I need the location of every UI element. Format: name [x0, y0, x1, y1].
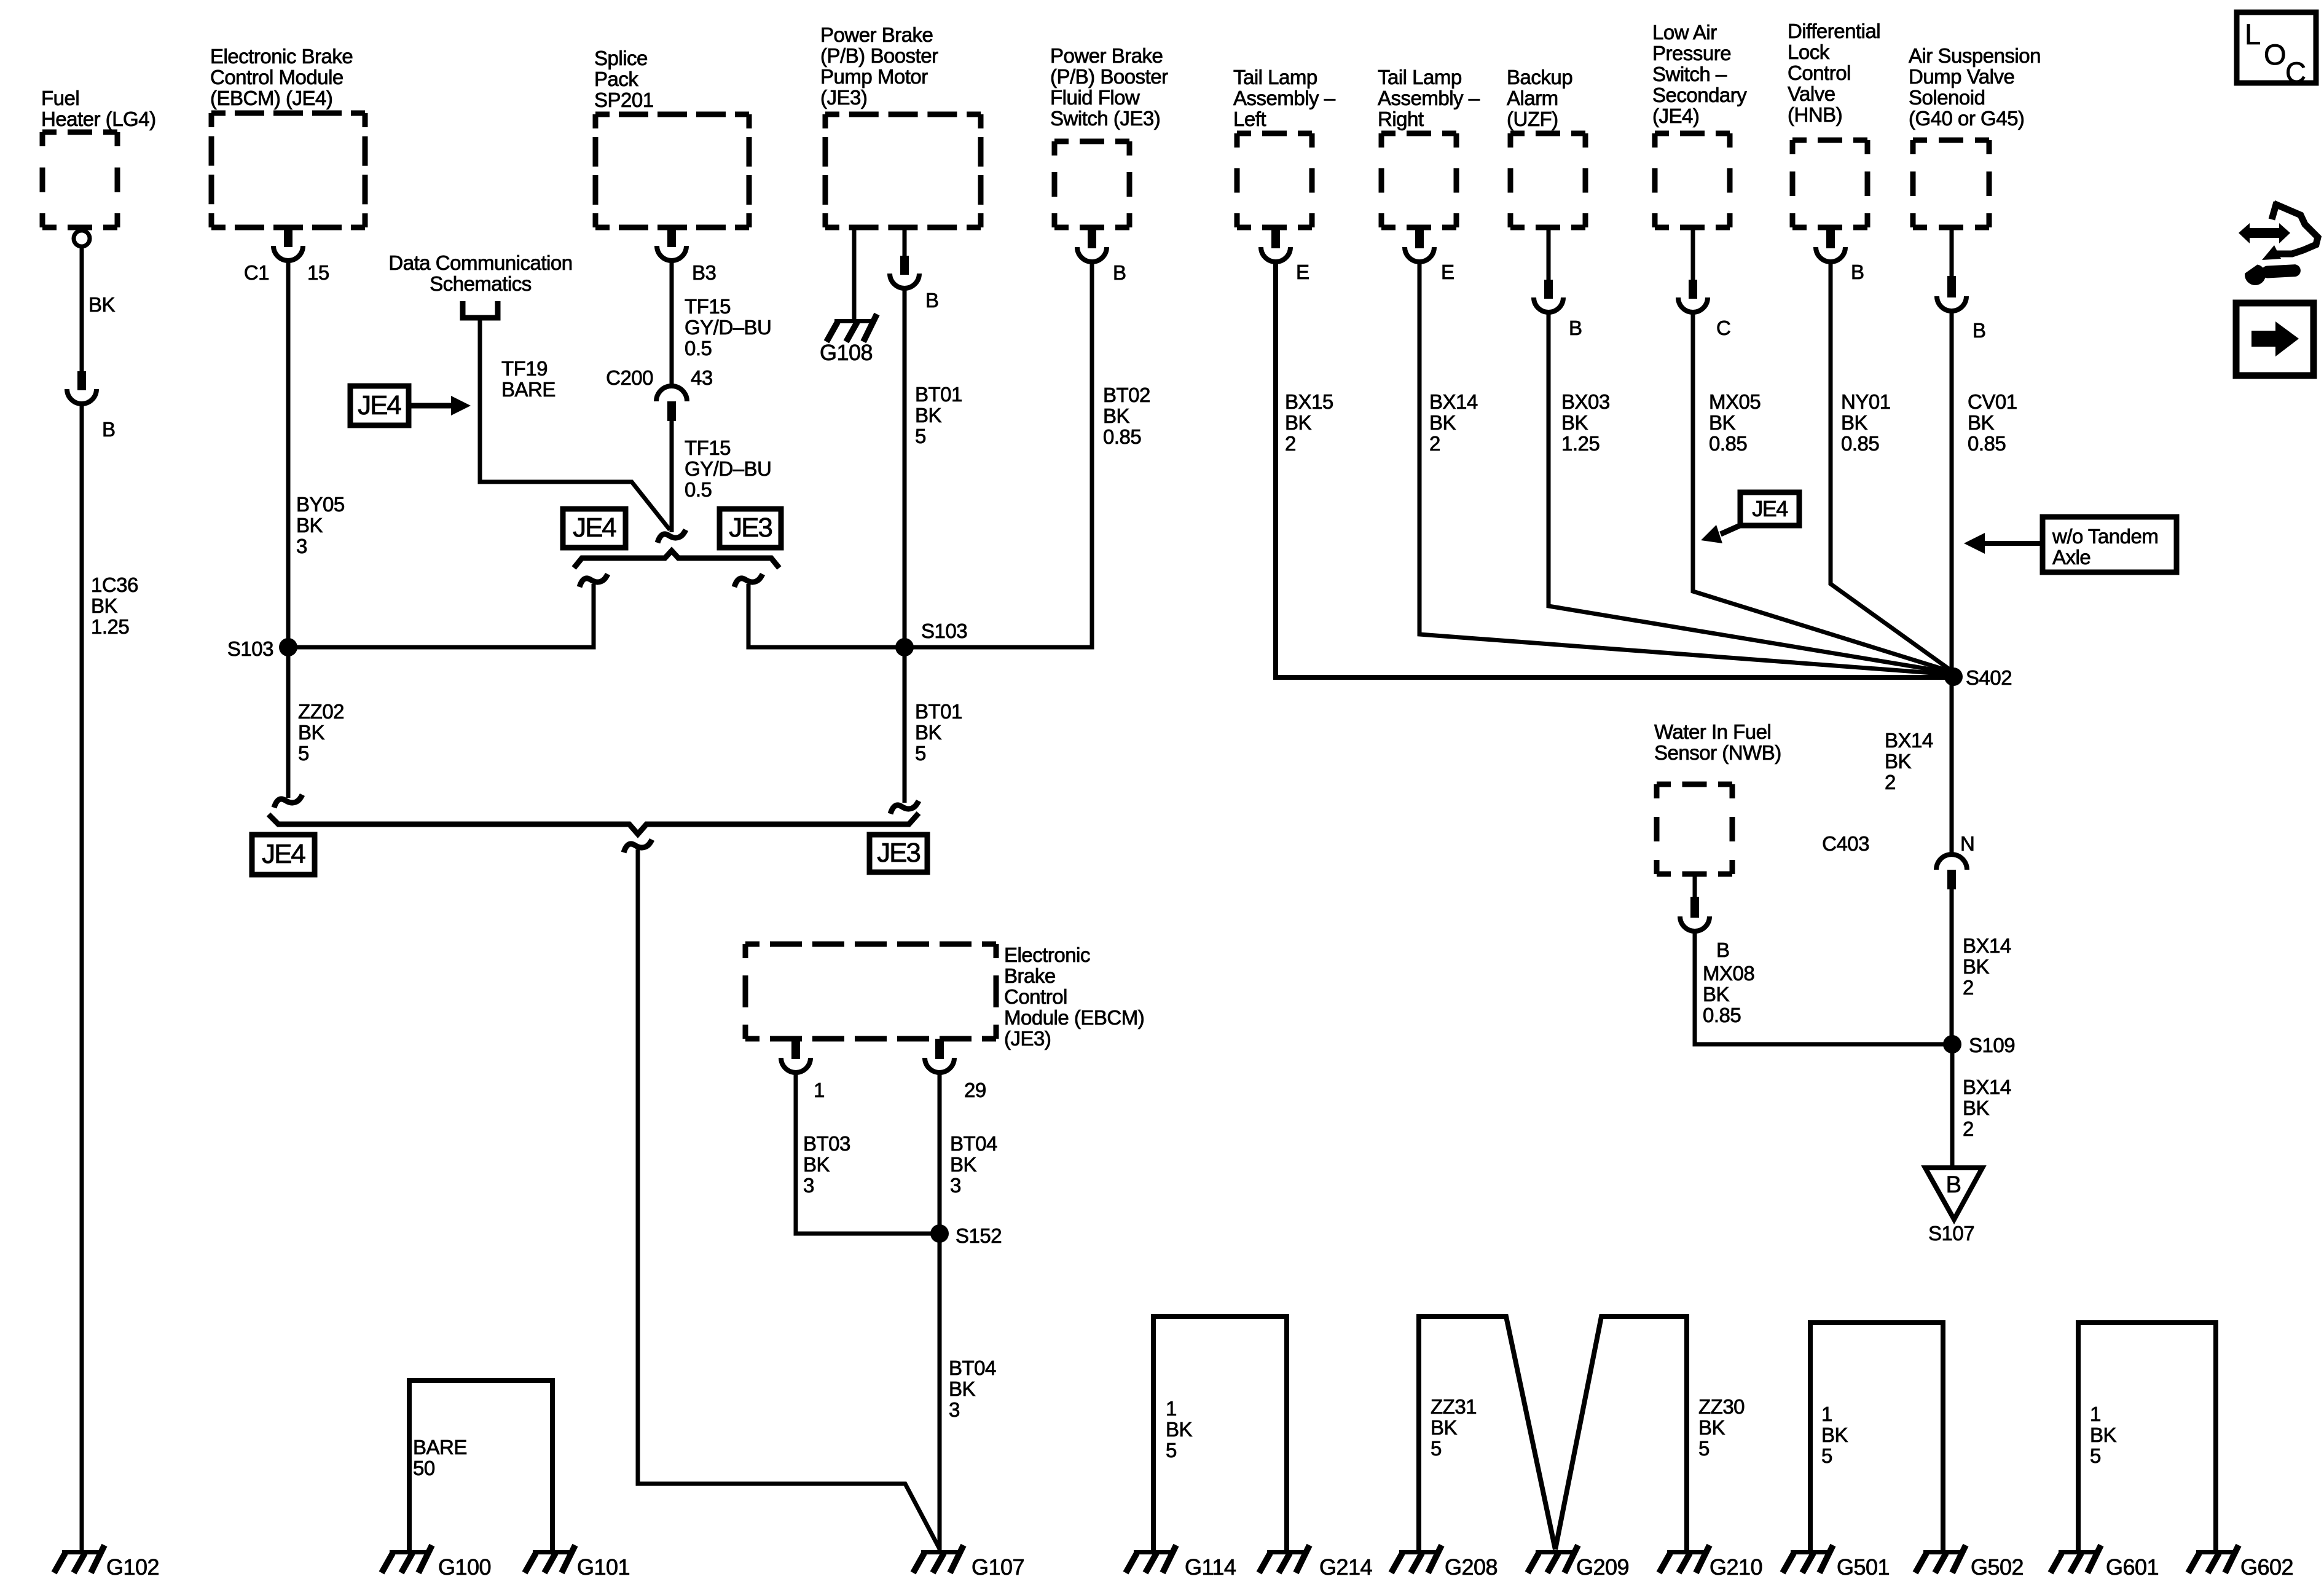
svg-text:Secondary: Secondary	[1652, 84, 1747, 106]
svg-text:G601: G601	[2106, 1554, 2159, 1579]
svg-text:BY05: BY05	[296, 493, 345, 516]
svg-text:Axle: Axle	[2052, 546, 2090, 569]
wire: low air pressure lead	[1691, 227, 1695, 280]
svg-text:BK: BK	[1166, 1418, 1193, 1441]
wire: wire BX14 to S107	[1950, 1044, 1955, 1169]
svg-text:Heater (LG4): Heater (LG4)	[41, 108, 156, 130]
label: Tail Lamp Assembly Left title	[1233, 66, 1336, 130]
svg-text:BX14: BX14	[1429, 390, 1478, 413]
off-page bracket to Data Communication Schematics	[463, 301, 498, 318]
wire: wire BT04 upper	[938, 1074, 942, 1234]
component box: Electronic Brake Control Module (EBCM) (JE3) (dashed)	[745, 944, 996, 1039]
svg-text:CV01: CV01	[1968, 390, 2017, 413]
label: wire label BX14 BK 2 below S109	[1963, 1076, 2011, 1140]
svg-text:(G40 or G45): (G40 or G45)	[1909, 107, 2024, 130]
svg-text:BK: BK	[803, 1153, 830, 1176]
label: wire label BT02 BK 0.85	[1103, 384, 1150, 448]
svg-text:BK: BK	[950, 1153, 977, 1176]
wire break hook at JE4 branch wire top	[579, 574, 608, 587]
label: wire label CV01 BK 0.85	[1968, 390, 2017, 455]
label: wire label BX14 BK 2 below S402	[1885, 729, 1933, 793]
svg-text:3: 3	[949, 1398, 960, 1421]
svg-text:(P/B) Booster: (P/B) Booster	[1050, 65, 1168, 88]
svg-text:50: 50	[413, 1457, 435, 1479]
component box: Power Brake (P/B) Booster Pump Motor (JE3) (dashed)	[825, 114, 981, 227]
wire break hook at JE3 branch wire top	[734, 574, 763, 587]
svg-text:G501: G501	[1837, 1554, 1890, 1579]
label: wire label 1 BK 5 left	[1166, 1397, 1193, 1462]
wire: wire TF19 BARE	[480, 320, 670, 530]
label: wire label BK	[88, 293, 116, 316]
label: wire label BT04 BK 3 lower	[949, 1357, 996, 1421]
ground G214	[1259, 1545, 1309, 1573]
wire: wire BT01 lower	[903, 647, 907, 803]
svg-text:Pack: Pack	[594, 68, 638, 90]
off-page triangle S107 terminal B	[1925, 1168, 1982, 1219]
connector C200: inline cap arc and pin bar	[656, 386, 687, 421]
wire: ground loop BARE 50	[409, 1380, 552, 1551]
connector ring below Fuel Heater	[74, 230, 90, 246]
svg-text:(HNB): (HNB)	[1788, 103, 1842, 126]
svg-text:Lock: Lock	[1788, 41, 1830, 63]
svg-text:2: 2	[1963, 976, 1974, 999]
svg-text:BK: BK	[298, 721, 325, 744]
svg-text:G209: G209	[1576, 1554, 1629, 1579]
label: Air Suspension Dump Valve Solenoid title	[1909, 44, 2041, 130]
svg-text:Tail Lamp: Tail Lamp	[1378, 66, 1462, 89]
svg-text:G502: G502	[1971, 1554, 2024, 1579]
label: Power Brake Booster Fluid Flow Switch title	[1050, 44, 1168, 130]
connector splice pack terminal B3: pin bar and socket arc	[657, 228, 686, 261]
svg-text:BK: BK	[1963, 1097, 1990, 1119]
svg-text:G100: G100	[438, 1554, 491, 1579]
component box: Air Suspension Dump Valve Solenoid (G40 or G45) (dashed)	[1913, 140, 1989, 227]
svg-text:Differential: Differential	[1788, 20, 1880, 42]
svg-text:SP201: SP201	[594, 89, 654, 111]
wire: bundle wire to G107	[638, 849, 940, 1549]
label: wire label ZZ30 BK 5	[1698, 1395, 1745, 1460]
svg-text:(EBCM) (JE4): (EBCM) (JE4)	[210, 87, 332, 109]
label: EBCM (JE3) title	[1004, 943, 1144, 1050]
wire: wire BX03	[1549, 313, 1949, 672]
svg-text:TF19: TF19	[501, 357, 548, 380]
label: wire label TF15 GY/D-BU 0.5 upper	[685, 295, 771, 360]
svg-text:Backup: Backup	[1507, 66, 1572, 89]
component box: Backup Alarm (UZF) (dashed)	[1510, 133, 1585, 227]
connector low air pressure terminal C: pin bar and socket arc	[1678, 280, 1708, 312]
svg-text:1: 1	[1821, 1403, 1832, 1425]
splice node S402	[1944, 667, 1963, 686]
svg-text:Assembly –: Assembly –	[1378, 87, 1480, 109]
svg-text:G107: G107	[972, 1554, 1024, 1579]
harness split brace upper	[574, 551, 779, 568]
svg-text:Sensor (NWB): Sensor (NWB)	[1654, 741, 1781, 764]
svg-text:G102: G102	[106, 1554, 159, 1579]
svg-text:BK: BK	[915, 404, 942, 427]
svg-text:5: 5	[1698, 1437, 1710, 1460]
svg-text:0.85: 0.85	[1968, 432, 2006, 455]
svg-text:BARE: BARE	[501, 378, 555, 401]
wire: ground loop G208-G209	[1419, 1317, 1555, 1551]
wire: JE3 branch wire to S103 right	[748, 584, 905, 647]
svg-text:B: B	[1973, 319, 1986, 342]
svg-text:Switch –: Switch –	[1652, 63, 1727, 85]
arrow from JE4 tag to TF19 wire	[409, 403, 452, 409]
component box: Water In Fuel Sensor (NWB) (dashed)	[1657, 784, 1732, 874]
reference box JE3 branch tag lower	[870, 835, 927, 872]
svg-text:2: 2	[1963, 1117, 1974, 1140]
arrow from w/o Tandem Axle box to CV01 wire	[1984, 541, 2043, 546]
svg-text:NY01: NY01	[1841, 390, 1891, 413]
svg-text:TF15: TF15	[685, 295, 731, 318]
svg-text:Solenoid: Solenoid	[1909, 86, 1985, 109]
svg-text:N: N	[1960, 832, 1974, 855]
svg-text:Fluid Flow: Fluid Flow	[1050, 86, 1140, 109]
svg-text:C200: C200	[606, 366, 653, 389]
svg-text:GY/D–BU: GY/D–BU	[685, 457, 771, 480]
svg-text:L: L	[2245, 18, 2261, 50]
wire break hook at BT01 end	[890, 801, 919, 814]
svg-text:0.5: 0.5	[685, 478, 712, 501]
wire: WIF lead	[1693, 874, 1697, 897]
LOC reference box	[2237, 12, 2316, 89]
label: wire label BX14 BK 2 above S109	[1963, 934, 2011, 999]
svg-text:BX14: BX14	[1885, 729, 1933, 752]
wire break hook at TF15 junction	[658, 530, 686, 543]
component box: Power Brake (P/B) Booster Fluid Flow Switch (JE3) (dashed)	[1054, 141, 1129, 227]
svg-text:S402: S402	[1966, 666, 2012, 689]
label: Splice Pack SP201 title	[594, 47, 654, 111]
label: wire label TF15 GY/D-BU 0.5 lower	[685, 436, 771, 501]
wire: wire BX14 between C403 and S109	[1950, 889, 1954, 1044]
connector EBCM JE3 pin 1: pin bar and socket arc	[781, 1039, 811, 1073]
wire: fuel heater ground wire 1C36	[80, 406, 84, 1551]
svg-text:Left: Left	[1233, 108, 1266, 130]
ground G208	[1391, 1545, 1442, 1573]
label: wire label NY01 BK 0.85	[1841, 390, 1891, 455]
reference box JE4 branch tag lower	[252, 835, 315, 875]
svg-text:0.5: 0.5	[685, 337, 712, 360]
reference box JE4 option tag near S402	[1740, 492, 1799, 526]
svg-text:3: 3	[803, 1174, 814, 1197]
svg-text:BX14: BX14	[1963, 1076, 2011, 1098]
svg-text:BT02: BT02	[1103, 384, 1150, 406]
svg-text:Control: Control	[1004, 985, 1067, 1008]
svg-text:BT03: BT03	[803, 1132, 850, 1155]
splice node S109	[1943, 1035, 1961, 1053]
svg-text:Assembly –: Assembly –	[1233, 87, 1336, 109]
svg-text:BK: BK	[1429, 411, 1456, 434]
svg-text:GY/D–BU: GY/D–BU	[685, 316, 771, 339]
component box: Differential Lock Control Valve (HNB) (dashed)	[1792, 140, 1867, 227]
svg-text:BK: BK	[1963, 955, 1990, 978]
svg-text:B: B	[1716, 939, 1730, 961]
svg-text:Switch (JE3): Switch (JE3)	[1050, 107, 1160, 130]
wire: ground loop G501-G502	[1810, 1323, 1943, 1551]
svg-text:2: 2	[1285, 432, 1296, 455]
svg-text:Fuel: Fuel	[41, 87, 79, 109]
svg-text:5: 5	[298, 742, 309, 765]
ground G114	[1126, 1545, 1176, 1573]
svg-text:G602: G602	[2240, 1554, 2293, 1579]
svg-text:0.85: 0.85	[1103, 425, 1141, 448]
wire: ground loop G601-G602	[2078, 1323, 2216, 1551]
svg-text:15: 15	[307, 261, 329, 284]
svg-text:5: 5	[1431, 1437, 1442, 1460]
svg-text:Low Air: Low Air	[1652, 21, 1717, 44]
label: wire label 1 BK 5 right	[2090, 1403, 2117, 1467]
splice node S103	[279, 638, 297, 656]
ground G102	[54, 1545, 104, 1573]
icon: double arrow with crooked arrow and wrench	[2237, 202, 2318, 285]
label: wire label BT03 BK 3	[803, 1132, 850, 1197]
svg-text:2: 2	[1885, 771, 1896, 793]
component box: Electronic Brake Control Module (EBCM) (JE4) (dashed)	[211, 113, 365, 227]
svg-text:BK: BK	[1285, 411, 1312, 434]
svg-text:E: E	[1296, 261, 1309, 283]
reference box JE3 branch tag upper	[720, 509, 781, 548]
wire: wire BX15	[1276, 263, 1953, 677]
svg-text:ZZ31: ZZ31	[1431, 1395, 1477, 1418]
svg-text:Tail Lamp: Tail Lamp	[1233, 66, 1317, 89]
svg-text:Power Brake: Power Brake	[1050, 44, 1163, 67]
ground G100	[382, 1545, 432, 1573]
svg-text:Electronic Brake: Electronic Brake	[210, 45, 353, 68]
svg-text:C403: C403	[1822, 832, 1869, 855]
svg-text:C: C	[2285, 56, 2306, 89]
svg-text:JE3: JE3	[729, 513, 772, 543]
svg-text:Right: Right	[1378, 108, 1424, 130]
svg-text:BT04: BT04	[950, 1132, 997, 1155]
ground G501	[1783, 1545, 1833, 1573]
svg-text:0.85: 0.85	[1709, 432, 1747, 455]
wire: wire TF15 lower	[670, 421, 674, 532]
svg-text:G210: G210	[1710, 1554, 1762, 1579]
svg-text:Water In Fuel: Water In Fuel	[1654, 720, 1771, 743]
label: wire label BX15 BK 2	[1285, 390, 1333, 455]
svg-text:Power Brake: Power Brake	[820, 23, 933, 46]
svg-text:S107: S107	[1928, 1222, 1974, 1245]
wire: wire BT04 lower	[938, 1234, 942, 1551]
ground G210	[1659, 1545, 1710, 1573]
component box: Low Air Pressure Switch - Secondary (JE4) (dashed)	[1655, 133, 1730, 227]
svg-text:1C36: 1C36	[91, 573, 138, 596]
svg-text:BK: BK	[1561, 411, 1588, 434]
connector EBCM C1 pin 15: pin bar and socket arc	[273, 228, 303, 261]
svg-text:BK: BK	[1841, 411, 1868, 434]
connector flow switch terminal B: pin bar and socket arc	[1077, 229, 1107, 262]
component box: Tail Lamp Assembly - Left (dashed)	[1237, 133, 1312, 227]
svg-text:(JE3): (JE3)	[1004, 1027, 1051, 1050]
svg-text:S152: S152	[956, 1224, 1002, 1247]
connector C403: inline cap arc and pin bar	[1936, 854, 1967, 889]
svg-text:ZZ02: ZZ02	[298, 700, 344, 723]
svg-text:BX14: BX14	[1963, 934, 2011, 957]
label: wire label TF19 BARE	[501, 357, 555, 401]
component box: Splice Pack SP201 (dashed)	[595, 114, 749, 227]
label: wire label BT01 BK 5 upper	[915, 383, 962, 447]
svg-text:Schematics: Schematics	[430, 272, 532, 295]
label: Backup Alarm (UZF) title	[1507, 66, 1572, 130]
svg-text:BX15: BX15	[1285, 390, 1333, 413]
ground G107	[913, 1545, 964, 1573]
svg-text:TF15: TF15	[685, 436, 731, 459]
connector backup alarm terminal B: pin bar and socket arc	[1534, 280, 1563, 312]
svg-text:5: 5	[915, 742, 926, 765]
svg-text:BK: BK	[1709, 411, 1736, 434]
label: wire label BARE 50	[413, 1436, 467, 1479]
label: wire label 1 BK 5 middle	[1821, 1403, 1848, 1467]
svg-text:MX05: MX05	[1709, 390, 1761, 413]
harness bundle line with end ticks and center drop	[269, 813, 919, 834]
wire: wire MX05	[1693, 313, 1950, 671]
svg-text:29: 29	[964, 1079, 986, 1101]
svg-text:Splice: Splice	[594, 47, 648, 69]
svg-text:43: 43	[691, 366, 713, 389]
wire: wire MX08	[1695, 932, 1952, 1044]
svg-text:(UZF): (UZF)	[1507, 108, 1558, 130]
label: Tail Lamp Assembly Right title	[1378, 66, 1480, 130]
svg-text:B: B	[1946, 1172, 1961, 1198]
svg-text:S103: S103	[921, 620, 967, 642]
icon: boxed right arrow	[2236, 303, 2314, 376]
connector tail lamp left terminal E: pin bar and socket arc	[1261, 229, 1290, 262]
splice node S103 right	[895, 638, 914, 656]
svg-text:G114: G114	[1185, 1554, 1236, 1579]
connector fuel heater inline connector: pin bar and socket arc	[67, 371, 96, 404]
svg-text:B: B	[102, 418, 116, 441]
callout box: w/o Tandem Axle	[2043, 517, 2177, 572]
svg-text:B: B	[1113, 261, 1126, 284]
svg-text:5: 5	[915, 425, 926, 447]
splice node S152	[930, 1224, 949, 1243]
svg-text:BK: BK	[1698, 1416, 1725, 1439]
ground G502	[1915, 1545, 1966, 1573]
label: Fuel Heater (LG4) title	[41, 87, 156, 130]
svg-text:MX08: MX08	[1703, 962, 1754, 985]
wire: pump motor ground leg	[852, 227, 857, 320]
svg-text:Control Module: Control Module	[210, 66, 343, 89]
svg-text:1.25: 1.25	[91, 615, 129, 638]
svg-text:Module (EBCM): Module (EBCM)	[1004, 1006, 1144, 1029]
wire: wire BX14 right lamp	[1419, 263, 1949, 674]
wire: wire TF15 upper	[670, 262, 674, 386]
wire: wire BT02	[905, 263, 1092, 647]
svg-text:1.25: 1.25	[1561, 432, 1600, 455]
svg-text:5: 5	[1166, 1439, 1177, 1462]
svg-text:(P/B) Booster: (P/B) Booster	[820, 44, 938, 67]
svg-text:BK: BK	[1968, 411, 1995, 434]
ground G602	[2188, 1545, 2239, 1573]
svg-text:B3: B3	[692, 261, 716, 284]
svg-text:E: E	[1441, 261, 1454, 283]
svg-text:BK: BK	[1103, 404, 1130, 427]
svg-text:0.85: 0.85	[1703, 1004, 1741, 1026]
connector air suspension terminal B: pin bar and socket arc	[1937, 276, 1966, 311]
svg-text:Air Suspension: Air Suspension	[1909, 44, 2041, 67]
svg-text:G208: G208	[1445, 1554, 1498, 1579]
svg-text:BT04: BT04	[949, 1357, 996, 1379]
svg-text:Data Communication: Data Communication	[388, 251, 572, 274]
svg-text:O: O	[2264, 38, 2287, 71]
svg-text:C: C	[1716, 317, 1730, 339]
svg-text:Pressure: Pressure	[1652, 42, 1731, 65]
svg-text:B: B	[1851, 261, 1864, 283]
svg-text:5: 5	[2090, 1444, 2101, 1467]
svg-text:BK: BK	[91, 594, 118, 617]
arrow from JE4 option tag to MX05 wire	[1721, 524, 1743, 534]
label: wire label BX03 BK 1.25	[1561, 390, 1610, 455]
wire: wire CV01 / BX14 main vertical	[1950, 312, 1954, 854]
svg-text:BK: BK	[296, 514, 323, 537]
svg-text:BARE: BARE	[413, 1436, 467, 1459]
label: wire label BT04 BK 3 upper	[950, 1132, 997, 1197]
wire: pump motor lead to connector	[903, 227, 907, 256]
svg-text:Alarm: Alarm	[1507, 87, 1558, 109]
wire break hook at ZZ02 end	[274, 795, 302, 808]
svg-text:S103: S103	[227, 637, 273, 660]
svg-text:BK: BK	[1431, 1416, 1458, 1439]
svg-text:Pump Motor: Pump Motor	[820, 65, 928, 88]
svg-text:BK: BK	[88, 293, 116, 316]
label: Differential Lock Control Valve title	[1788, 20, 1880, 126]
wire: wire ZZ02	[286, 647, 291, 798]
svg-text:3: 3	[296, 535, 307, 557]
wire: EBCM ground wire BY05	[286, 262, 291, 647]
svg-text:JE4: JE4	[358, 390, 401, 420]
svg-text:1: 1	[1166, 1397, 1177, 1420]
wire: wire BT03	[796, 1074, 940, 1234]
reference box JE4 harness tag with arrow	[350, 386, 409, 425]
svg-text:JE3: JE3	[877, 838, 920, 868]
connector diff lock terminal B: pin bar and socket arc	[1816, 229, 1845, 262]
label: Power Brake Booster Pump Motor title	[820, 23, 938, 109]
connector tail lamp right terminal E: pin bar and socket arc	[1405, 229, 1434, 262]
ground G101	[525, 1545, 575, 1573]
component box: Fuel Heater (LG4) (dashed)	[42, 132, 117, 227]
svg-text:G101: G101	[577, 1554, 630, 1579]
label: wire label BX14 BK 2	[1429, 390, 1478, 455]
svg-text:B: B	[1569, 317, 1582, 339]
svg-text:BK: BK	[2090, 1423, 2117, 1446]
svg-text:BK: BK	[1703, 983, 1730, 1006]
ground G601	[2051, 1545, 2101, 1573]
connector WIF terminal B: pin bar and socket arc	[1680, 897, 1710, 931]
label: wire label ZZ02 BK 5	[298, 700, 344, 765]
svg-text:0.85: 0.85	[1841, 432, 1879, 455]
svg-text:w/o Tandem: w/o Tandem	[2052, 525, 2158, 548]
ground G108	[826, 314, 877, 342]
svg-text:BK: BK	[1821, 1423, 1848, 1446]
label: Low Air Pressure Switch Secondary title	[1652, 21, 1747, 127]
svg-text:BK: BK	[915, 721, 942, 744]
wire: ground loop G114-G214	[1153, 1317, 1287, 1551]
label: Water In Fuel Sensor title	[1654, 720, 1781, 764]
svg-text:5: 5	[1821, 1444, 1832, 1467]
svg-text:JE4: JE4	[262, 839, 305, 869]
svg-text:JE4: JE4	[1752, 496, 1788, 521]
label: EBCM (JE4) title	[210, 45, 353, 109]
label: wire label BT01 BK 5 lower	[915, 700, 962, 765]
svg-text:BK: BK	[1885, 750, 1912, 773]
component box: Tail Lamp Assembly - Right (dashed)	[1381, 133, 1456, 227]
svg-text:G108: G108	[820, 340, 873, 365]
svg-text:C1: C1	[244, 261, 269, 284]
connector pump motor terminal B: pin bar and socket arc	[890, 256, 919, 288]
svg-text:BX03: BX03	[1561, 390, 1610, 413]
svg-text:1: 1	[814, 1079, 825, 1101]
svg-text:BT01: BT01	[915, 700, 962, 723]
